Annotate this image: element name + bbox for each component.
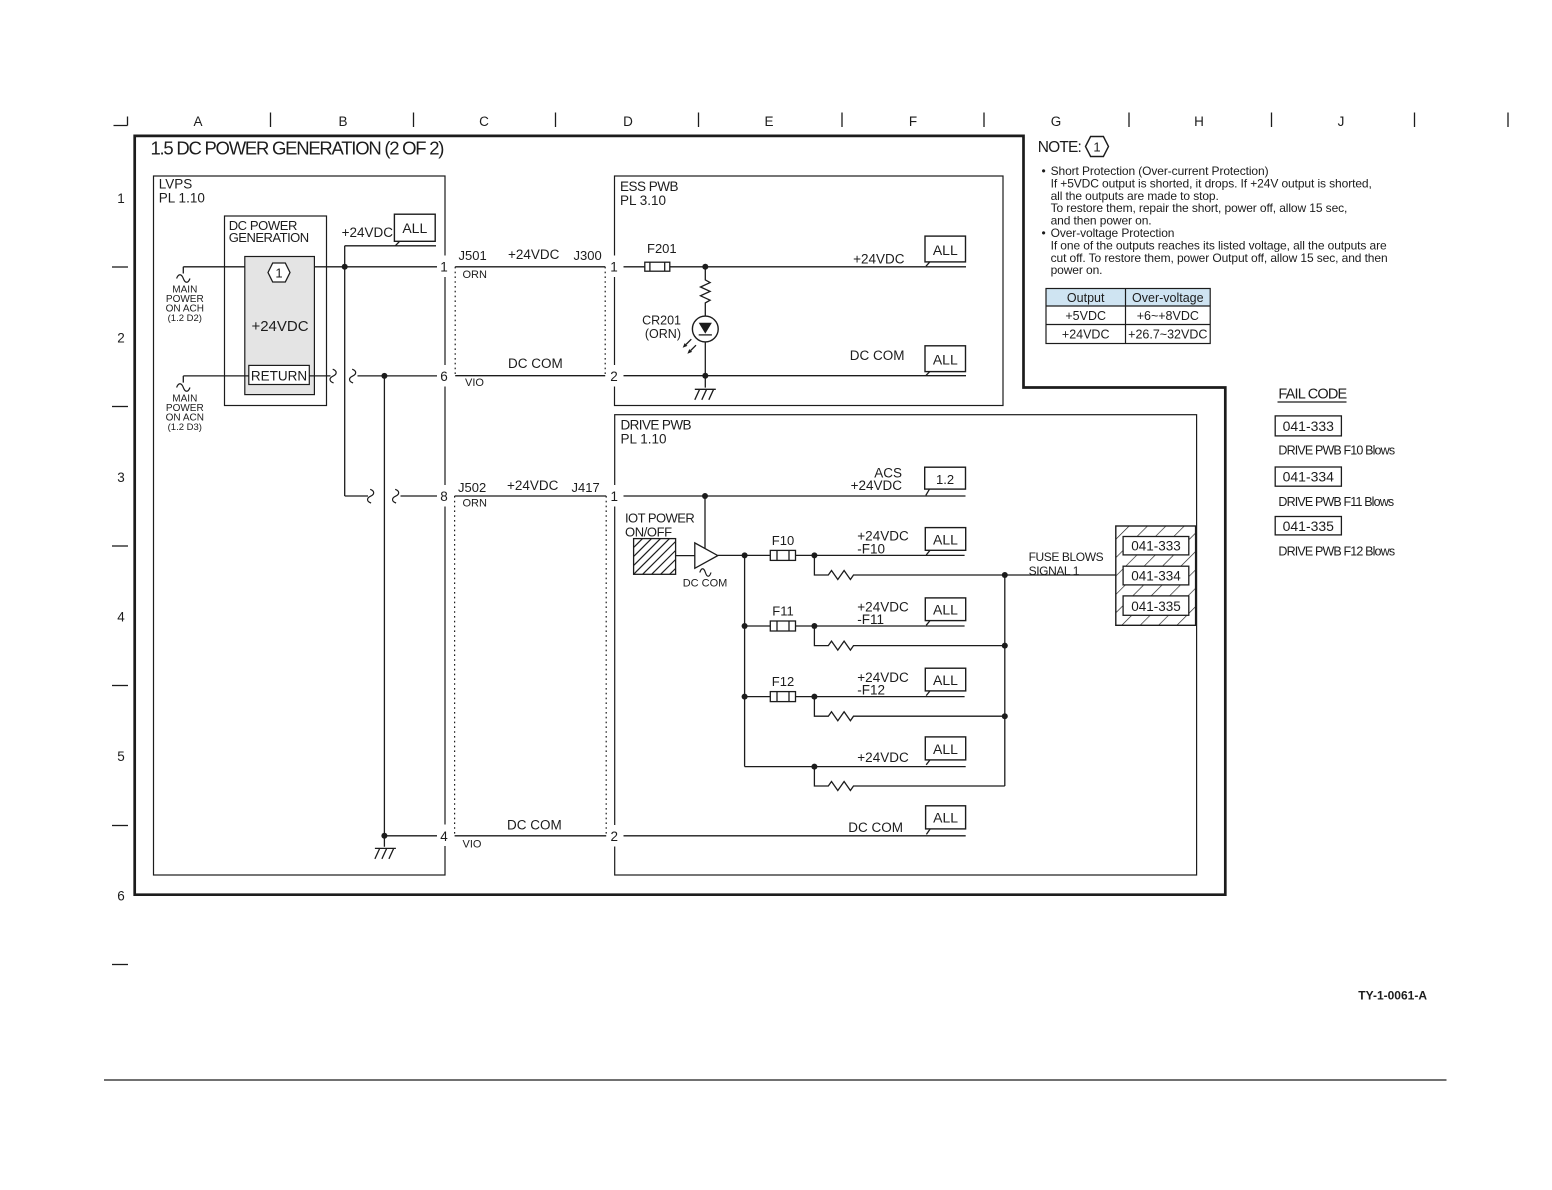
svg-text:F12: F12 xyxy=(772,674,794,689)
connector J501/J300 dashed box xyxy=(455,267,605,376)
wire F10 to ALL flag xyxy=(796,554,965,556)
svg-text:GENERATION: GENERATION xyxy=(229,230,309,245)
svg-text:(ORN): (ORN) xyxy=(645,327,681,341)
svg-text:J502: J502 xyxy=(458,480,486,495)
svg-text:+24VDC: +24VDC xyxy=(507,478,559,493)
svg-text:F: F xyxy=(909,114,917,129)
svg-text:-F12: -F12 xyxy=(857,683,885,698)
ruler row numbers xyxy=(117,191,125,904)
over-voltage table xyxy=(1046,289,1210,307)
svg-text:ALL: ALL xyxy=(402,220,427,236)
svg-text:ORN: ORN xyxy=(463,269,488,281)
junction dot sense bus mid xyxy=(1002,643,1008,649)
svg-text:PL 1.10: PL 1.10 xyxy=(621,432,667,447)
wire RETURN to LVPS pin 6 xyxy=(309,375,330,377)
svg-text:ORN: ORN xyxy=(463,498,488,510)
ALL destination flag (ESS +24VDC) xyxy=(925,236,966,262)
svg-text:6: 6 xyxy=(117,889,125,904)
svg-text:ESS PWB: ESS PWB xyxy=(620,179,679,194)
svg-text:2: 2 xyxy=(117,331,125,346)
svg-text:DRIVE PWB F12 Blows: DRIVE PWB F12 Blows xyxy=(1278,544,1394,558)
break squiggle pair on pin-8 wire xyxy=(368,489,374,503)
svg-text:+24VDC: +24VDC xyxy=(342,225,394,240)
svg-text:+26.7~32VDC: +26.7~32VDC xyxy=(1128,327,1207,341)
wire J501-6 to J300-2 (DC COM, VIO) xyxy=(455,375,605,377)
fail code 041-335 box xyxy=(1123,596,1189,615)
svg-text:J417: J417 xyxy=(572,480,600,495)
junction dot +24VDC node xyxy=(342,264,348,270)
svg-text:+5VDC: +5VDC xyxy=(1065,309,1106,323)
DC POWER GENERATION box xyxy=(225,216,327,406)
svg-text:FAIL CODE: FAIL CODE xyxy=(1278,386,1347,402)
ALL destination flag (unfused +24VDC) xyxy=(925,737,965,760)
break tilde on ACH lead xyxy=(177,275,190,283)
svg-text:•: • xyxy=(1042,164,1046,178)
svg-text:6: 6 xyxy=(440,369,448,384)
svg-text:J501: J501 xyxy=(459,248,487,263)
fuse F201 xyxy=(645,262,670,271)
svg-text:CR201: CR201 xyxy=(642,313,681,327)
wire vertical fuse feed bus xyxy=(744,555,746,766)
svg-text:J: J xyxy=(1338,114,1345,129)
svg-text:power on.: power on. xyxy=(1051,263,1103,277)
ALL destination flag (F12) xyxy=(925,668,965,691)
buffer (IOT power switch) xyxy=(695,543,718,568)
note hexagon 1 (inside generator) xyxy=(268,263,290,282)
sense resistor F11 xyxy=(814,626,1004,650)
junction dot F12 feed xyxy=(742,694,748,700)
main drawing thick border with step at top-right xyxy=(135,136,1226,895)
svg-text:C: C xyxy=(479,114,489,129)
LED arrows xyxy=(686,339,691,344)
svg-text:LVPS: LVPS xyxy=(159,177,193,192)
resistor (LED series) xyxy=(701,267,711,316)
ALL destination flag (F11) xyxy=(925,598,965,621)
wire feed to F11 xyxy=(745,625,771,627)
junction dot at F201 output xyxy=(702,264,708,270)
svg-text:ALL: ALL xyxy=(933,741,958,757)
svg-text:1.5 DC POWER GENERATION (2 OF: 1.5 DC POWER GENERATION (2 OF 2) xyxy=(151,138,445,159)
fail code 041-333 (legend) xyxy=(1275,416,1341,436)
svg-text:B: B xyxy=(338,114,347,129)
svg-text:1: 1 xyxy=(275,266,282,281)
svg-text:PL 3.10: PL 3.10 xyxy=(620,193,666,208)
DRIVE PWB block box xyxy=(615,415,1197,875)
svg-text:NOTE:: NOTE: xyxy=(1038,139,1081,156)
svg-text:5: 5 xyxy=(117,749,125,764)
sense resistor unfused branch xyxy=(814,767,1004,791)
svg-text:8: 8 xyxy=(440,489,448,504)
svg-text:+24VDC: +24VDC xyxy=(853,252,905,267)
svg-text:(1.2 D3): (1.2 D3) xyxy=(168,422,202,433)
svg-text:2: 2 xyxy=(610,369,618,384)
svg-text:1: 1 xyxy=(440,260,448,275)
junction dot F12 output xyxy=(811,694,817,700)
svg-text:FUSE BLOWS: FUSE BLOWS xyxy=(1029,550,1104,564)
footer separator line xyxy=(104,1079,1447,1081)
LVPS pin gaps xyxy=(438,256,452,847)
svg-text:1.2: 1.2 xyxy=(936,472,954,487)
junction dot F11 output xyxy=(811,623,817,629)
svg-text:+24VDC: +24VDC xyxy=(851,478,903,493)
svg-text:4: 4 xyxy=(117,610,125,625)
svg-text:Output: Output xyxy=(1067,291,1105,305)
ruler corner mark top-left xyxy=(114,117,128,126)
note hexagon 1 xyxy=(1086,137,1109,157)
svg-text:041-333: 041-333 xyxy=(1283,418,1335,434)
svg-text:DRIVE PWB F11 Blows: DRIVE PWB F11 Blows xyxy=(1278,495,1393,509)
svg-text:+24VDC: +24VDC xyxy=(1062,327,1110,341)
wire hatched box to buffer xyxy=(676,555,695,557)
svg-text:F10: F10 xyxy=(772,533,794,548)
wire fuse-blows sense bus xyxy=(1004,575,1006,786)
wire riser to ALL flag xyxy=(345,246,436,267)
wire F201 to +24VDC ALL flag xyxy=(670,266,966,268)
svg-text:J300: J300 xyxy=(574,248,602,263)
svg-text:ALL: ALL xyxy=(933,242,958,258)
wire J501-1 to J300-1 (+24VDC, ORN) xyxy=(455,266,605,268)
svg-text:RETURN: RETURN xyxy=(251,369,307,384)
fuse F11 xyxy=(770,621,795,631)
wire F11 to ALL flag xyxy=(796,625,965,627)
svg-text:DC COM: DC COM xyxy=(850,348,905,363)
+24VDC generator inner box xyxy=(245,257,315,395)
DRIVE pin gaps xyxy=(608,485,622,847)
svg-text:DC COM: DC COM xyxy=(508,356,563,371)
svg-text:SIGNAL 1: SIGNAL 1 xyxy=(1029,564,1080,578)
sense resistor F10 xyxy=(814,555,1004,579)
wire from dot down to buffer xyxy=(704,496,706,548)
wire MAIN POWER ON ACN lead xyxy=(183,376,249,383)
junction dot sense bus top xyxy=(1002,572,1008,578)
ESS pin gaps xyxy=(608,256,622,387)
svg-text:F201: F201 xyxy=(647,241,677,256)
fail code 041-335 (legend) xyxy=(1275,517,1341,535)
svg-text:•: • xyxy=(1042,226,1046,240)
svg-text:A: A xyxy=(193,114,202,129)
LVPS block box xyxy=(154,176,446,875)
svg-text:-F10: -F10 xyxy=(857,542,885,557)
svg-text:1: 1 xyxy=(611,489,619,504)
ALL destination flag (F10) xyxy=(925,528,965,551)
svg-text:+24VDC: +24VDC xyxy=(251,318,308,335)
ALL destination flag (ESS DC COM) xyxy=(925,346,966,372)
connector J502/J417 dashed box xyxy=(455,496,607,836)
svg-text:041-333: 041-333 xyxy=(1131,539,1181,554)
fuse F12 xyxy=(770,692,795,702)
wire LED to DC COM rail xyxy=(704,342,706,376)
break squiggle pair on RETURN wire xyxy=(330,369,336,383)
ruler column letters xyxy=(193,114,1344,129)
svg-text:ALL: ALL xyxy=(933,810,958,826)
fail code 041-334 (legend) xyxy=(1275,467,1341,486)
svg-text:4: 4 xyxy=(440,829,448,844)
svg-text:ALL: ALL xyxy=(933,531,958,547)
svg-text:1: 1 xyxy=(117,191,125,206)
junction dot F10 output xyxy=(811,552,817,558)
fail code 041-333 box xyxy=(1123,537,1189,555)
node MAIN POWER ON ACH label xyxy=(166,284,204,324)
ruler column tick marks xyxy=(271,113,1509,128)
svg-text:1: 1 xyxy=(1093,139,1100,154)
break tilde on ACN lead xyxy=(177,384,190,392)
wire J417-1 +24VDC to ACS flag xyxy=(624,495,966,497)
note body text xyxy=(1042,164,1388,277)
svg-text:DC COM: DC COM xyxy=(683,577,728,589)
fuse F10 xyxy=(770,550,795,560)
svg-text:DRIVE PWB: DRIVE PWB xyxy=(621,418,692,433)
ALL destination flag (DRIVE DC COM) xyxy=(926,806,966,829)
svg-text:+6~+8VDC: +6~+8VDC xyxy=(1137,309,1199,323)
svg-text:TY-1-0061-A: TY-1-0061-A xyxy=(1358,989,1427,1003)
wire J300-2 DC COM xyxy=(624,375,967,377)
wire +24VDC output from generator to LVPS pin 1 xyxy=(314,266,437,268)
wire feed to F10 xyxy=(745,554,771,556)
wire vertical RETURN down to ground / pin 4 row xyxy=(384,376,437,836)
svg-text:ON/OFF: ON/OFF xyxy=(625,524,672,539)
junction dot at ground xyxy=(381,833,387,839)
wire J417-2 DC COM xyxy=(624,835,966,837)
svg-text:041-335: 041-335 xyxy=(1131,599,1181,614)
svg-text:ALL: ALL xyxy=(933,602,958,618)
wire unfused +24VDC branch xyxy=(745,766,966,768)
svg-text:041-335: 041-335 xyxy=(1283,518,1335,534)
svg-text:G: G xyxy=(1051,114,1062,129)
sense resistor F12 xyxy=(814,697,1004,721)
wire J502-4 to J417-2 (DC COM, VIO) xyxy=(455,835,607,837)
1.2 destination flag xyxy=(925,467,966,489)
svg-text:3: 3 xyxy=(117,470,125,485)
junction dot buffer output xyxy=(742,552,748,558)
wire feed to F12 xyxy=(745,696,771,698)
node MAIN POWER ON ACN label xyxy=(166,393,204,433)
wire F12 to ALL flag xyxy=(796,696,965,698)
ground (ESS) xyxy=(695,376,716,400)
wire buffer output to fuse bus xyxy=(718,554,745,556)
svg-text:H: H xyxy=(1194,114,1204,129)
svg-text:Over-voltage: Over-voltage xyxy=(1132,291,1204,305)
junction dot sense bus low xyxy=(1002,713,1008,719)
svg-text:(1.2 D2): (1.2 D2) xyxy=(168,313,202,324)
ground (LVPS dc com) xyxy=(375,836,396,859)
svg-text:VIO: VIO xyxy=(463,839,482,851)
ruler row dash marks xyxy=(112,267,128,965)
svg-text:DC COM: DC COM xyxy=(848,820,903,835)
svg-text:2: 2 xyxy=(611,829,619,844)
wire to LVPS pin 8 xyxy=(401,495,438,497)
junction dot F11 feed xyxy=(742,623,748,629)
svg-text:E: E xyxy=(764,114,773,129)
wire bus to fail code box xyxy=(1005,574,1116,576)
svg-text:+24VDC: +24VDC xyxy=(857,750,909,765)
fail code 041-334 box xyxy=(1123,566,1189,585)
junction dot on DC COM rail xyxy=(702,373,708,379)
svg-text:PL 1.10: PL 1.10 xyxy=(159,191,205,206)
svg-text:DRIVE PWB F10 Blows: DRIVE PWB F10 Blows xyxy=(1278,443,1394,457)
svg-text:DC COM: DC COM xyxy=(507,818,562,833)
break tilde under buffer xyxy=(700,569,711,577)
junction dot unfused branch xyxy=(811,764,817,770)
svg-text:-F11: -F11 xyxy=(857,612,884,627)
wire MAIN POWER ON ACH lead xyxy=(183,267,245,274)
svg-text:1: 1 xyxy=(610,260,618,275)
junction dot RETURN node xyxy=(381,373,387,379)
wire J300-1 to F201 xyxy=(624,266,645,268)
svg-text:IOT POWER: IOT POWER xyxy=(625,510,694,525)
svg-text:041-334: 041-334 xyxy=(1283,469,1335,485)
ESS PWB block box xyxy=(615,176,1004,406)
svg-text:ALL: ALL xyxy=(933,672,958,688)
svg-text:F11: F11 xyxy=(772,604,793,619)
LED CR201 (ORN) xyxy=(692,316,718,342)
svg-text:VIO: VIO xyxy=(465,377,484,389)
svg-text:041-334: 041-334 xyxy=(1131,569,1181,584)
junction dot IOT power node xyxy=(702,493,708,499)
wire J502-8 to J417-1 (+24VDC, ORN) xyxy=(455,495,607,497)
ALL destination flag (LVPS +24VDC) xyxy=(394,214,435,241)
svg-text:ALL: ALL xyxy=(933,352,958,368)
svg-text:+24VDC: +24VDC xyxy=(508,247,560,262)
IOT POWER ON/OFF hatched box xyxy=(634,539,676,575)
wire vertical +24VDC down to J502 pin 8 row xyxy=(345,267,368,496)
RETURN box xyxy=(249,365,309,384)
svg-text:D: D xyxy=(623,114,633,129)
